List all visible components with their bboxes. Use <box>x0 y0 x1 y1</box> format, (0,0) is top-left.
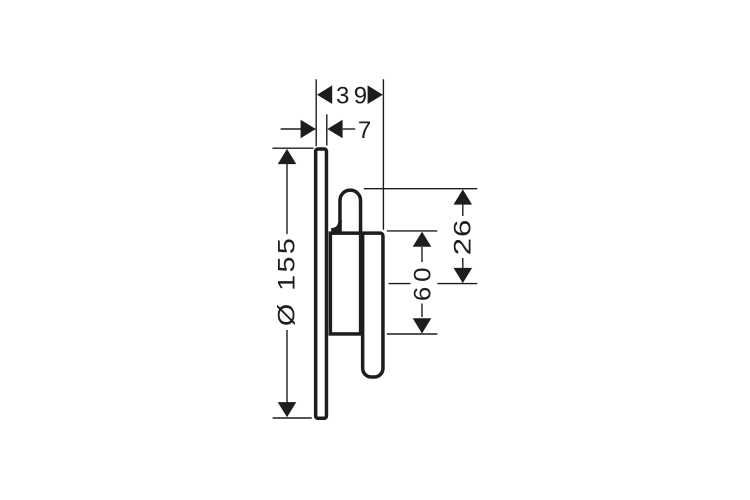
svg-text:7: 7 <box>358 117 371 144</box>
svg-text:26: 26 <box>449 219 476 256</box>
svg-text:Ø 155: Ø 155 <box>273 236 300 326</box>
svg-text:39: 39 <box>336 82 372 109</box>
svg-text:60: 60 <box>409 263 436 302</box>
